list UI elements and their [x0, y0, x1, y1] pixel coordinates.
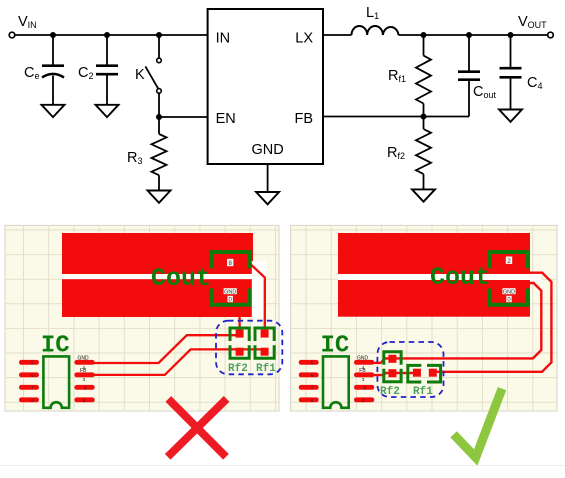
trace IC FB pad to Rf2 bottom / Rf1 left [368, 373, 417, 375]
left PCB layout panel [5, 225, 282, 411]
svg-text:EN: EN [216, 111, 236, 127]
pour gap white strip [338, 274, 530, 280]
trace Cout+ return (outer) to Rf1 right [433, 273, 552, 372]
Cout pad 1 label [227, 259, 233, 267]
svg-text:GND: GND [503, 289, 515, 295]
trace IC GND pad to Rf2 pad [92, 335, 240, 363]
trace Cout+ to Rf1 top [249, 263, 265, 334]
svg-text:Rf2: Rf2 [228, 363, 248, 375]
trace IC GND pad to Rf2 top [368, 358, 392, 363]
IC body outline [323, 356, 349, 407]
node junction Rf1 top [421, 32, 427, 38]
Cout pad 2 bracket (bottom GND) [211, 289, 249, 305]
svg-text:GND: GND [357, 355, 369, 361]
svg-text:5: 5 [311, 360, 314, 365]
svg-text:GND: GND [224, 289, 236, 295]
capacitor Cout [458, 35, 480, 117]
node VIN terminal [9, 32, 15, 38]
ground Ce [42, 105, 65, 117]
resistor Rf2 footprint (vertical) [230, 328, 249, 358]
node junction C4 top [508, 32, 514, 38]
node junction EN/R3 [156, 114, 162, 120]
Cout pad 2 GND label [224, 288, 237, 295]
Cout pad 2 number label [506, 296, 511, 304]
trace GND return (inner) to Rf2 top [392, 283, 541, 358]
svg-text:FB: FB [359, 368, 366, 374]
svg-text:2: 2 [363, 386, 366, 392]
svg-text:7: 7 [31, 385, 34, 390]
svg-text:5: 5 [31, 360, 34, 365]
switch K [145, 35, 161, 117]
Cout pad 1 label [506, 257, 512, 265]
svg-text:6: 6 [31, 373, 34, 378]
ground C4 [499, 110, 522, 122]
svg-text:GND: GND [78, 355, 90, 361]
IC pads left column (pins 5-8) [299, 360, 319, 402]
node VOUT terminal [548, 32, 554, 38]
capacitor C2 [96, 35, 118, 105]
svg-text:2: 2 [84, 386, 87, 392]
IC pin number labels left [311, 360, 314, 403]
inductor L1 [352, 26, 399, 35]
svg-text:3: 3 [362, 377, 365, 383]
resistor Rf2 [416, 117, 431, 190]
wrong mark (red X) [168, 399, 227, 457]
op-amp U1 IC box [208, 9, 323, 164]
IC pads right column (pins 1-4) [354, 360, 374, 402]
PCB grid [5, 225, 279, 411]
right PCB layout panel [291, 225, 557, 411]
wire GND pin [267, 164, 269, 192]
trace IC FB pad to Rf2/Rf1 bottom [92, 349, 265, 375]
resistor Rf2 footprint (vertical) [384, 352, 401, 382]
copper pour GND (bottom red rect) [62, 279, 253, 317]
ground IC GND [256, 192, 279, 204]
Cout pad 1 bracket (top) [490, 252, 528, 268]
resistor Rf1 [416, 35, 431, 117]
copper pour VOUT (top red rect) [62, 233, 253, 274]
IC body outline [43, 356, 69, 407]
highlight box (blue dashed) [377, 342, 443, 397]
Cout pad 2 number label [228, 296, 233, 304]
IC pin number labels left [31, 360, 34, 403]
svg-text:8: 8 [311, 398, 314, 403]
svg-text:Cout: Cout [430, 263, 490, 292]
svg-text:8: 8 [31, 398, 34, 403]
IC pin name labels right (GND 4 FB 3 2 1) [357, 355, 369, 404]
Cout pad 1 bracket (top) [211, 252, 249, 268]
node junction Ce [50, 32, 56, 38]
ground C2 [96, 105, 119, 117]
node junction Cout top [466, 32, 472, 38]
trace GND pour to Rf2 top [238, 316, 240, 331]
highlight box (blue dashed) [216, 321, 282, 375]
svg-text:3: 3 [83, 377, 86, 383]
Cout pad 2 bracket (bottom GND) [490, 289, 528, 305]
Cout pad 2 GND label [502, 288, 515, 295]
resistor Rf1 footprint (vertical) [255, 328, 274, 358]
bottom separator line [0, 465, 565, 467]
IC pads left column (pins 5-8) [19, 360, 39, 402]
PCB panel background [291, 225, 557, 411]
svg-text:GND: GND [251, 142, 283, 158]
svg-text:Rf2: Rf2 [380, 386, 400, 398]
svg-text:FB: FB [294, 111, 313, 127]
wire VIN rail [15, 34, 208, 36]
IC pads right column (pins 1-4) [74, 360, 94, 402]
wire FB line [323, 116, 469, 118]
ground Rf2 [412, 189, 435, 201]
resistor Rf1 footprint (horizontal) [408, 365, 441, 382]
svg-text:LX: LX [295, 30, 313, 46]
pour clearance white strip [252, 261, 266, 318]
svg-text:IN: IN [216, 30, 231, 46]
copper pour GND (bottom red rect) [338, 280, 530, 317]
svg-text:1: 1 [83, 398, 86, 404]
IC pin name labels right (GND 4 FB 3 2 1) [78, 355, 90, 404]
resistor R3 [152, 117, 167, 191]
wire EN line [159, 116, 208, 118]
node junction K [156, 32, 162, 38]
svg-text:Rf1: Rf1 [256, 363, 276, 375]
svg-text:7: 7 [311, 385, 314, 390]
svg-text:6: 6 [311, 373, 314, 378]
PCB panel background [5, 225, 279, 411]
node junction Rf1 bottom FB [421, 114, 427, 120]
svg-text:K: K [135, 67, 145, 83]
capacitor Ce [42, 35, 64, 105]
PCB grid [291, 225, 557, 411]
pour gap white strip [62, 274, 253, 279]
ground R3 [148, 191, 171, 203]
copper pour VOUT (top red rect) [338, 233, 530, 274]
svg-text:FB: FB [80, 368, 87, 374]
capacitor C4 [500, 35, 522, 110]
svg-text:Cout: Cout [151, 264, 211, 293]
correct mark (green check) [454, 389, 502, 458]
svg-text:1: 1 [362, 398, 365, 404]
wire LX to VOUT rail [323, 34, 548, 36]
node junction C2 [104, 32, 110, 38]
